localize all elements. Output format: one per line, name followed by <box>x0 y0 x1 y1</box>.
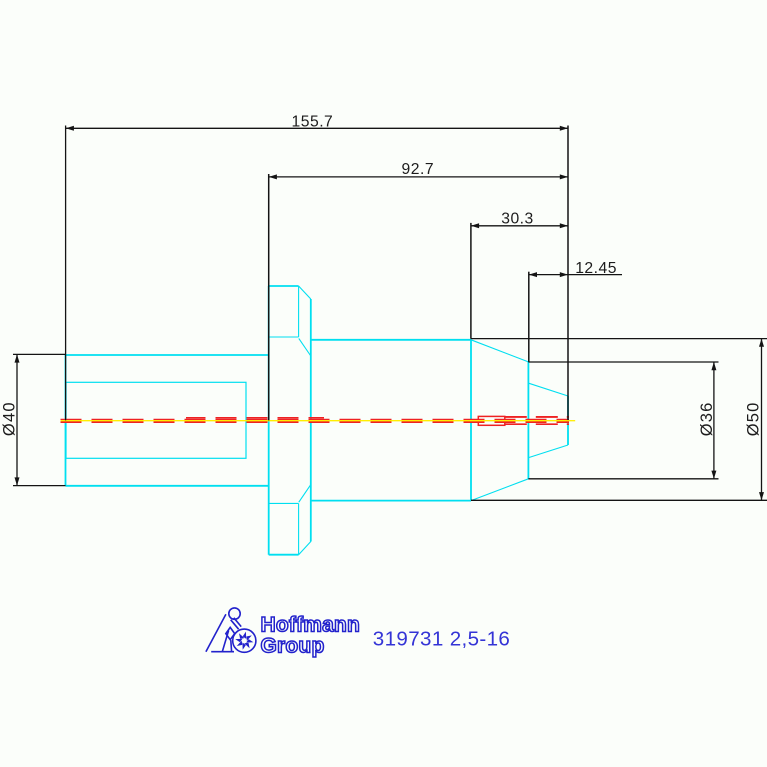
arrow dia50 bottom <box>759 492 764 500</box>
arrow dia50 top <box>759 339 764 347</box>
cone slant bottom <box>471 479 528 501</box>
right end face <box>567 396 569 445</box>
logo inner leg right <box>230 640 233 652</box>
flange left face <box>268 286 270 555</box>
mid section double-line dash top <box>186 417 324 419</box>
logo rhombus <box>226 627 235 639</box>
logo head circle <box>229 608 240 619</box>
arrow dia40 bottom <box>15 477 20 485</box>
dim line 155.7 <box>66 127 568 129</box>
logo gear wheel <box>233 629 256 652</box>
arrow 155.7 left <box>66 126 74 131</box>
flange neck line bottom <box>269 502 299 504</box>
flange neck line top <box>269 336 299 338</box>
extension line 12.45 <box>528 272 530 362</box>
part outline (cyan) <box>66 286 569 555</box>
cylinder Ø40 top edge <box>66 354 269 356</box>
extension bottom dia36 <box>528 478 718 480</box>
arrow dia40 top <box>15 354 20 362</box>
flange neck diagonal top <box>299 338 311 356</box>
extension line right (shared) <box>567 126 569 421</box>
svg-text:30.3: 30.3 <box>501 211 534 228</box>
arrow 30.3 right <box>560 223 568 228</box>
arrow 92.7 left <box>269 174 277 179</box>
svg-text:Ø36: Ø36 <box>698 402 716 437</box>
flange chamfer edge top <box>298 286 300 337</box>
svg-text:155.7: 155.7 <box>292 113 334 130</box>
shaft Ø50 bottom edge <box>311 500 471 502</box>
collet face Ø36 <box>527 362 529 479</box>
flange top edge <box>269 285 299 287</box>
extension top dia50 <box>471 338 767 340</box>
flange right face <box>310 299 312 542</box>
flange neck diagonal bottom <box>299 485 311 503</box>
svg-text:Hoffmann: Hoffmann <box>261 614 361 637</box>
nose slant top <box>529 383 568 396</box>
logo A left slant <box>206 614 226 651</box>
arrow dia36 bottom <box>711 471 716 479</box>
cylinder Ø40 bottom edge <box>66 485 269 487</box>
centerline main red dash <box>61 419 570 423</box>
logo wordmark <box>261 614 361 658</box>
cone slant top <box>471 340 528 362</box>
dimension texts <box>1 113 763 436</box>
centerline red dashes <box>61 416 570 425</box>
extension bottom dia50 <box>471 499 767 501</box>
svg-text:92.7: 92.7 <box>402 161 435 178</box>
shaft Ø50 top edge <box>311 339 471 341</box>
cone start face <box>470 340 472 501</box>
arrowheads <box>15 126 765 501</box>
flange chamfer bottom-right <box>299 542 311 555</box>
extension top dia36 <box>528 361 718 363</box>
extension top dia40 <box>13 353 66 355</box>
logo gear star <box>235 632 253 650</box>
svg-text:Group: Group <box>261 634 325 657</box>
bore rectangle <box>66 382 246 458</box>
svg-text:319731 2,5-16: 319731 2,5-16 <box>373 627 510 650</box>
logo neck line 2 <box>234 618 241 627</box>
dim line 92.7 <box>269 176 568 178</box>
nose slant bottom <box>529 445 568 458</box>
dim line dia36 <box>713 362 715 479</box>
logo baseline <box>211 651 234 653</box>
logo neck line 1 <box>231 620 239 629</box>
arrow 92.7 right <box>560 174 568 179</box>
arrow 30.3 left <box>471 223 479 228</box>
dim line dia50 <box>761 339 763 501</box>
dimensions (black) <box>13 126 767 501</box>
extension line 30.3 <box>470 223 472 339</box>
extension line 92.7 <box>268 174 270 420</box>
svg-text:Ø40: Ø40 <box>1 401 19 436</box>
extension bottom dia40 <box>13 485 66 487</box>
arrow dia36 top <box>711 362 716 370</box>
flange chamfer top-right <box>299 286 311 299</box>
Hoffmann Group logo mark <box>206 608 256 652</box>
arrow 12.45 right <box>560 272 568 277</box>
flange bottom edge <box>269 554 299 556</box>
dim line dia40 <box>16 354 18 485</box>
svg-text:12.45: 12.45 <box>575 260 617 277</box>
clamping range dash bottom <box>505 423 569 425</box>
arrow 12.45 left <box>529 272 537 277</box>
red range box <box>478 416 505 425</box>
arrow 155.7 right <box>560 126 568 131</box>
flange chamfer edge bottom <box>298 504 300 555</box>
svg-text:Ø50: Ø50 <box>745 402 763 437</box>
logo inner leg left <box>222 631 228 652</box>
clamping range dash top <box>505 416 569 418</box>
dim line 12.45 with tail <box>529 274 622 276</box>
centerline yellow overshoot <box>566 420 575 422</box>
centerline yellow core <box>61 420 567 422</box>
cylinder Ø40 left face <box>65 355 67 486</box>
dim line 30.3 <box>471 225 568 227</box>
extension line left 155.7 <box>65 126 67 421</box>
